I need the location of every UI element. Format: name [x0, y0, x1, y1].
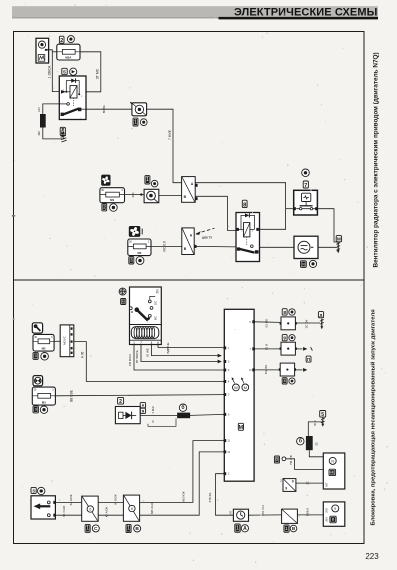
relay K1	[59, 76, 86, 120]
wire sensor to solenoid unit	[286, 459, 324, 470]
circle icon (P3)	[290, 525, 297, 532]
svg-text:ЗС ЭК: ЗС ЭК	[305, 319, 309, 328]
svg-text:3 М/К: 3 М/К	[151, 406, 155, 414]
svg-text:ВВБ К: ВВБ К	[306, 508, 310, 517]
wire R4 to solenoid unit	[309, 450, 323, 457]
receiver unit	[323, 502, 345, 526]
svg-text:1: 1	[134, 119, 137, 125]
svg-text:Ю WЕ: Ю WЕ	[146, 348, 150, 357]
wire C1-A to relay K2 / unit	[195, 183, 285, 230]
svg-text:1: 1	[236, 525, 239, 531]
steering icon	[33, 376, 43, 386]
pin B (C1)	[195, 197, 198, 200]
svg-text:МЕУ/ОК: МЕУ/ОК	[181, 491, 185, 502]
svg-text:223: 223	[365, 552, 379, 561]
wire S3 out	[295, 369, 303, 371]
svg-text:П: П	[307, 357, 310, 362]
circle icon (fuse F5)	[40, 406, 47, 413]
svg-text:1: 1	[127, 526, 130, 532]
immobilizer control unit	[224, 309, 254, 481]
svg-text:НО: НО	[228, 511, 232, 515]
pin 9 (unit left)	[224, 360, 227, 363]
wire motor to terminal	[318, 246, 337, 248]
svg-text:б: б	[299, 438, 302, 445]
wire fuse F1 to relay K1	[79, 52, 101, 92]
connector P3	[282, 509, 298, 523]
svg-text:МС-0.8: МС-0.8	[163, 241, 167, 252]
svg-text:N: N	[331, 459, 334, 463]
svg-text:МВ К/НО: МВ К/НО	[150, 501, 154, 514]
diode unit V1	[115, 407, 140, 424]
pin (K2 coil left)	[236, 228, 239, 231]
terminal clamp (S1)	[320, 319, 324, 330]
connector C3	[60, 325, 74, 357]
arrowhead (S2)	[303, 347, 307, 351]
svg-text:Я: Я	[142, 409, 145, 413]
battery G1	[36, 38, 49, 63]
terminal clamp (battery +)	[321, 418, 325, 427]
thermal fuse B2	[144, 189, 159, 202]
svg-text:М: М	[61, 129, 65, 135]
wire P2 to unit (bottom)	[140, 452, 225, 515]
svg-text:5: 5	[63, 70, 66, 76]
badge 3 (fuse F3)	[129, 257, 134, 264]
svg-text:А 36: А 36	[80, 351, 84, 358]
svg-text:1: 1	[133, 341, 135, 345]
svg-text:Ю А/ОК: Ю А/ОК	[104, 506, 108, 517]
header grey bar	[12, 6, 378, 17]
circle icon (P2)	[134, 525, 141, 532]
badge 1 (P1)	[85, 524, 90, 532]
svg-text:С: С	[94, 526, 98, 532]
svg-text:М3: М3	[42, 401, 46, 405]
badge 1 (thermal switch)	[133, 118, 138, 126]
circle icon C (P1)	[92, 525, 99, 532]
badge 5 (terminal)	[320, 411, 326, 419]
wire unit to splice S2	[254, 348, 281, 350]
relay K2 dashed link	[246, 237, 248, 245]
svg-text:М3: М3	[42, 347, 46, 351]
connector P1	[82, 496, 99, 521]
splice S2	[280, 342, 297, 355]
relay K2 switch	[251, 245, 254, 248]
wire unit to splice S3	[254, 369, 280, 371]
svg-text:1: 1	[86, 526, 89, 532]
solenoid unit	[323, 453, 345, 489]
wire C4 to solenoid unit	[296, 482, 323, 484]
wire ignition pin6 to unit	[158, 345, 224, 348]
relay K2 coil	[244, 223, 250, 237]
indicator circles in unit	[232, 377, 249, 391]
relay K1 coil	[70, 86, 77, 98]
svg-text:9: 9	[285, 486, 287, 490]
svg-text:1 ОВСА: 1 ОВСА	[48, 65, 52, 78]
relay K2	[236, 213, 260, 262]
svg-text:9: 9	[334, 507, 336, 511]
badge А (diode unit)	[140, 403, 145, 408]
wire terminal to resistor R4	[308, 422, 323, 436]
svg-text:03 И: 03 И	[265, 344, 269, 350]
svg-text:б: б	[131, 507, 133, 511]
resistor R3	[177, 413, 190, 419]
badge 8 (splice S3)	[282, 378, 287, 384]
svg-text:ВДВ/НЕ: ВДВ/НЕ	[166, 343, 170, 354]
circle icon (resistor unit)	[302, 169, 310, 177]
relay K1 dashed link	[73, 98, 75, 107]
splice S1	[280, 317, 297, 330]
relay K1 coil loop	[66, 81, 79, 95]
svg-text:ЗТБ ВА: ЗТБ ВА	[208, 492, 212, 502]
wire timer to P3	[249, 514, 282, 516]
wire resistor unit to terminal	[317, 209, 337, 242]
wire battery feed	[47, 50, 59, 92]
badge П (S3)	[306, 356, 311, 362]
circle icon (fuse F1)	[67, 36, 74, 43]
wire S2 out	[295, 348, 302, 350]
badge 8 (splice S1)	[282, 309, 287, 316]
pin 12 (unit left)	[224, 450, 227, 453]
badge 1 (thermal fuse)	[145, 176, 150, 184]
pin 3 (unit left)	[224, 393, 227, 396]
circle icon (fuse F3)	[136, 257, 144, 265]
svg-text:ПВ У/В: ПВ У/В	[289, 455, 293, 464]
fuse F1	[57, 44, 80, 60]
svg-text:М: М	[337, 237, 341, 242]
badge НЕ (solenoid unit)	[329, 469, 336, 475]
svg-text:Блокировка, предотвращающая не: Блокировка, предотвращающая несанкционир…	[369, 309, 376, 526]
wire F3 to connector C2	[151, 245, 182, 247]
resistor R4	[306, 436, 313, 450]
resistor R1	[40, 114, 46, 128]
fuse F5	[32, 387, 55, 405]
badge М (ignition switch)	[121, 299, 126, 305]
fuse F2	[100, 188, 125, 203]
svg-text:ЗА К/ОК: ЗА К/ОК	[69, 494, 73, 505]
badge 7 (resistor unit)	[303, 181, 308, 189]
wire C2 to relay K2 switch	[194, 245, 236, 248]
circle icon (resistor)	[179, 404, 186, 411]
circle b (P2)	[129, 505, 135, 511]
circle icon (thermal fuse)	[151, 180, 158, 187]
frame divider between diagrams	[14, 279, 365, 281]
pin A (C1)	[195, 184, 198, 187]
svg-text:МЗА: МЗА	[65, 55, 71, 59]
pin B (C2)	[194, 245, 197, 248]
circle icon (motor)	[309, 260, 316, 267]
svg-text:А: А	[142, 404, 145, 408]
badge 3 (fuse F5)	[33, 406, 38, 413]
svg-text:Я: Я	[302, 262, 305, 266]
svg-text:ЗС: ЗС	[315, 442, 319, 446]
circle icon (thermal switch)	[140, 119, 147, 126]
pin 7 (unit right)	[252, 347, 255, 350]
wire diode unit to resistor	[140, 414, 177, 416]
pin 4 (unit left)	[224, 380, 227, 383]
badge д (terminal S1)	[318, 312, 323, 318]
splice S3	[279, 363, 296, 376]
thermal switch B1	[130, 102, 146, 116]
wire K1 to resistor R1	[43, 104, 60, 114]
relay K1 diode	[71, 79, 75, 83]
connector C2	[182, 228, 194, 255]
svg-text:ЗВА: ЗВА	[325, 517, 328, 522]
svg-text:2N: 2N	[156, 289, 160, 294]
fan icon (fuse F3)	[129, 226, 141, 237]
fuse F3	[128, 239, 151, 256]
svg-text:НО: НО	[37, 107, 41, 112]
badge 1 (P2)	[126, 524, 131, 532]
badge 2 (fuse F1)	[59, 36, 64, 44]
svg-text:М: М	[244, 385, 247, 390]
svg-text:д: д	[320, 313, 323, 318]
wire to fuse F1	[52, 51, 57, 53]
circle icon (splice S3)	[289, 378, 295, 384]
svg-text:ЗУО: ЗУО	[325, 508, 328, 513]
svg-text:30А: 30А	[131, 192, 135, 197]
svg-text:W: W	[234, 385, 238, 390]
pin (K2 coil right)	[256, 228, 259, 231]
svg-text:М: М	[239, 425, 244, 431]
wire ignition pin7 to unit	[141, 345, 218, 362]
timer component	[233, 509, 248, 521]
svg-text:МС: МС	[37, 130, 41, 135]
circle icon (splice S1)	[289, 309, 295, 315]
junction dot	[140, 193, 142, 195]
resistor unit R2	[294, 190, 318, 215]
fuse F4	[33, 334, 54, 351]
badge Я (diode unit)	[140, 408, 145, 413]
svg-text:МОУС: МОУС	[63, 335, 67, 345]
svg-text:7: 7	[304, 183, 307, 189]
sensor circle	[282, 457, 286, 461]
pin (door switch bottom)	[53, 514, 56, 517]
svg-text:В: В	[135, 526, 139, 532]
circle icon (ignition switch)	[119, 288, 126, 295]
circle icon (splice S2)	[289, 335, 295, 341]
wire C1-B to relay K2 coil	[195, 196, 236, 230]
svg-text:б: б	[181, 404, 184, 411]
tick (S2)	[311, 347, 313, 350]
svg-text:ЗА У/НО: ЗА У/НО	[62, 505, 66, 517]
pin (K1 right)	[84, 90, 87, 93]
ground symbol	[61, 135, 67, 142]
wire P2 to unit (top)	[140, 441, 225, 503]
svg-text:ЗТ МС: ЗТ МС	[96, 68, 100, 79]
svg-text:М3: М3	[137, 251, 141, 255]
svg-text:9: 9	[292, 480, 294, 484]
svg-text:4: 4	[151, 341, 153, 345]
svg-text:СВ МУ/А: СВ МУ/А	[128, 354, 132, 366]
wire unit to splice S1	[254, 321, 281, 324]
svg-text:8: 8	[284, 379, 286, 383]
svg-text:Ю С: Ю С	[313, 420, 317, 426]
svg-text:ЦОК ТУ: ЦОК ТУ	[202, 236, 212, 240]
wire P1 to P2 (bottom)	[98, 514, 123, 516]
svg-text:В: В	[276, 457, 279, 462]
pin 6 (unit left)	[224, 413, 227, 416]
relay K1 switch	[59, 103, 66, 105]
wire F4 to connector C3	[54, 340, 60, 342]
connector C1	[182, 177, 196, 203]
svg-text:Ю К/ОК: Ю К/ОК	[113, 494, 117, 504]
header black underline	[219, 17, 379, 20]
pin 1 (unit left)	[224, 346, 227, 349]
svg-text:2: 2	[119, 399, 122, 405]
badge М (terminal)	[336, 236, 341, 242]
dashed stub (C2)	[196, 228, 214, 233]
svg-text:5: 5	[321, 412, 324, 418]
pin 5 (unit right)	[252, 320, 255, 323]
transponder coil	[131, 327, 159, 339]
pin 11 (unit left)	[224, 439, 227, 442]
wire S1 to terminal	[295, 322, 320, 324]
terminal clamp	[336, 242, 340, 253]
pin (unit left)	[293, 207, 296, 210]
svg-text:ВОВА: ВОВА	[102, 105, 106, 113]
pin 10 (unit right)	[252, 368, 255, 371]
svg-text:ВТ ВМУЕ: ВТ ВМУЕ	[135, 350, 139, 363]
badge В (receiver)	[330, 516, 336, 523]
svg-text:ЗС: ЗС	[306, 481, 310, 485]
svg-text:1: 1	[146, 177, 149, 183]
arrowhead pin7 wire	[218, 360, 222, 364]
svg-text:7 НУЕ: 7 НУЕ	[168, 129, 172, 140]
connector P2	[123, 495, 139, 521]
svg-text:Вентилятор радиатора с электри: Вентилятор радиатора с электрическим при…	[373, 52, 380, 267]
frame edge tick	[12, 215, 15, 217]
svg-text:02 НО: 02 НО	[265, 318, 269, 327]
wire R1 to ground	[43, 128, 63, 139]
svg-text:Ю2 ВА: Ю2 ВА	[264, 365, 268, 374]
connector C4	[283, 479, 296, 492]
circle b (P1)	[87, 506, 93, 512]
svg-text:А: А	[243, 526, 247, 532]
wire door switch to P1 (top)	[55, 501, 81, 503]
pin (door switch top)	[53, 501, 56, 504]
wire F5 to control unit	[55, 395, 224, 396]
svg-text:9: 9	[283, 336, 286, 341]
svg-text:6: 6	[157, 341, 159, 345]
relay K1 pin arrow	[61, 90, 66, 94]
svg-text:8: 8	[283, 310, 286, 316]
arrowhead pin4 wire	[218, 354, 222, 358]
pin 8 (unit left)	[224, 369, 227, 372]
wire F2 to thermal fuse	[125, 194, 145, 196]
pin (unit right)	[315, 207, 318, 210]
circle icon (fuse F4)	[41, 353, 49, 361]
outer frame	[14, 32, 365, 544]
badge 9 (splice S2)	[282, 335, 287, 341]
badge 2 (fuse F2)	[102, 204, 107, 211]
wire P3 to receiver	[297, 514, 323, 516]
circle icon (relay K1)	[70, 68, 77, 75]
wire thermal fuse to connector C1	[159, 195, 182, 197]
badge М (ground)	[60, 127, 65, 135]
fan icon (fuse F2)	[101, 175, 110, 186]
ignition pin row	[130, 339, 162, 341]
badge М (control unit)	[238, 423, 243, 431]
arrowhead (S3)	[303, 368, 307, 372]
tick (fuse F3)	[141, 229, 143, 235]
wire P1 to P2 (top)	[98, 501, 123, 503]
wire K1 to thermal switch	[86, 108, 132, 110]
wire diode unit lower branch	[148, 418, 176, 426]
circle icon (door switch)	[38, 487, 45, 494]
pin 2 (unit left)	[224, 472, 227, 475]
badge 3 (fuse F4)	[33, 352, 38, 359]
badge 1 (P3)	[284, 525, 289, 532]
svg-text:НЕ: НЕ	[330, 471, 335, 475]
wire resistor to control unit	[190, 414, 224, 415]
ignition switch divider	[130, 324, 162, 326]
ignition switch lever	[135, 307, 140, 312]
badge 1 (timer)	[235, 524, 240, 532]
ignition switch contacts	[129, 296, 155, 317]
svg-text:2: 2	[60, 38, 63, 44]
wire branch to resistor unit	[286, 208, 294, 210]
svg-text:252 У/Н: 252 У/Н	[261, 505, 265, 515]
ignition switch S1	[130, 287, 162, 345]
relay K2 coil loop	[241, 215, 245, 229]
badge (motor)	[301, 261, 307, 268]
circle icon (resistor R4)	[297, 438, 304, 445]
circle icon А (timer)	[241, 525, 248, 532]
badge В (sensor)	[274, 456, 279, 463]
relay K2 diode	[245, 213, 249, 217]
badge 5 (relay K1)	[62, 68, 67, 75]
svg-text:б: б	[89, 508, 91, 512]
wire ignition pin1 to unit	[134, 345, 224, 370]
fan motor M	[294, 236, 318, 258]
wire door switch to P1 (bottom)	[55, 514, 81, 516]
svg-text:ВВ СВЕ: ВВ СВЕ	[69, 390, 73, 402]
door switch S2	[31, 496, 55, 519]
badge 2 (diode unit)	[118, 397, 124, 405]
wire C3 to control unit	[74, 342, 225, 382]
wire unit to timer	[216, 474, 234, 516]
wire ignition pin4 to unit	[152, 345, 218, 356]
wire K2 to motor M	[260, 246, 295, 248]
badge 3 (door switch)	[31, 487, 36, 493]
circle icon (fuse F2)	[110, 204, 118, 212]
svg-text:МТ: МТ	[325, 482, 329, 486]
svg-text:МЗ: МЗ	[110, 198, 114, 202]
badge 8 (relay K2)	[242, 200, 247, 208]
svg-text:7: 7	[140, 341, 142, 345]
key icon	[32, 323, 42, 333]
wire thermal switch to connector C1	[147, 109, 182, 183]
